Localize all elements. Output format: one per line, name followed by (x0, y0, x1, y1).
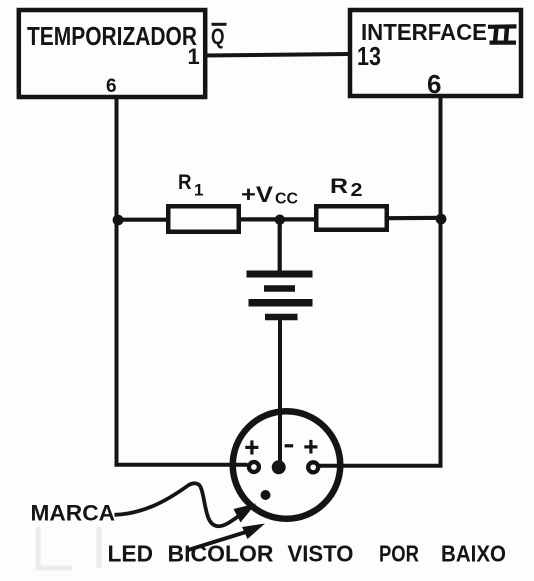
svg-text:+V: +V (241, 182, 273, 207)
polarity + left (245, 440, 258, 454)
svg-text:TEMPORIZADOR: TEMPORIZADOR (27, 21, 197, 51)
svg-text:MARCA: MARCA (31, 501, 116, 526)
wire battery to LED center pin (278, 317, 282, 467)
svg-text:1: 1 (188, 44, 200, 69)
LED pin left anode ring (249, 462, 259, 472)
resistor R2 (316, 206, 387, 230)
caption LED BICOLOR VISTO POR BAIXO (108, 541, 507, 567)
svg-text:2: 2 (351, 180, 363, 200)
battery B1 (247, 274, 313, 317)
resistor R1 (168, 206, 239, 232)
svg-text:6: 6 (427, 69, 441, 99)
svg-text:LED: LED (108, 541, 154, 567)
svg-text:R: R (178, 171, 192, 194)
mark dot on LED package (261, 490, 271, 500)
faint scan watermark (decorative, very light) (38, 527, 99, 568)
LED bicolor package outline (233, 411, 341, 519)
wire Vcc node down to battery (278, 220, 282, 273)
svg-text:VISTO: VISTO (288, 541, 354, 567)
node junction right rail (436, 214, 447, 225)
leader squiggle from MARCA to mark dot (115, 483, 257, 526)
wire rail right segment (389, 216, 443, 221)
svg-text:13: 13 (357, 41, 381, 71)
svg-text:1: 1 (194, 181, 203, 200)
arrow pointing to LED package (188, 524, 265, 551)
svg-text:R: R (330, 175, 348, 198)
svg-text:BICOLOR: BICOLOR (168, 541, 274, 567)
label R1 (178, 171, 203, 200)
wire rail left segment (114, 218, 170, 222)
svg-text:BAIXO: BAIXO (441, 541, 506, 567)
wire left vertical from pin 6 to LED left pin (117, 97, 248, 465)
polarity - center (285, 444, 294, 447)
label II roman numeral (488, 26, 517, 42)
label +Vcc (241, 182, 298, 208)
svg-text:POR: POR (379, 541, 419, 567)
IC box INTERFACE II U2 (350, 10, 521, 96)
wire Q-bar output to pin 13 (204, 54, 350, 56)
IC box TEMPORIZADOR U1 (19, 10, 205, 97)
LED pin right anode ring (308, 462, 318, 472)
node junction left rail (113, 215, 124, 226)
LED pin center cathode dot (272, 460, 286, 474)
pin label Q-bar (211, 24, 227, 49)
polarity + right (304, 440, 317, 454)
svg-text:CC: CC (275, 191, 298, 208)
wire right vertical from pin 6 to LED right pin (319, 96, 441, 466)
svg-text:6: 6 (106, 76, 117, 97)
label R2 (330, 175, 363, 200)
node +Vcc junction (275, 215, 285, 225)
wire rail middle segment (241, 217, 316, 221)
svg-text:Q: Q (211, 24, 225, 49)
